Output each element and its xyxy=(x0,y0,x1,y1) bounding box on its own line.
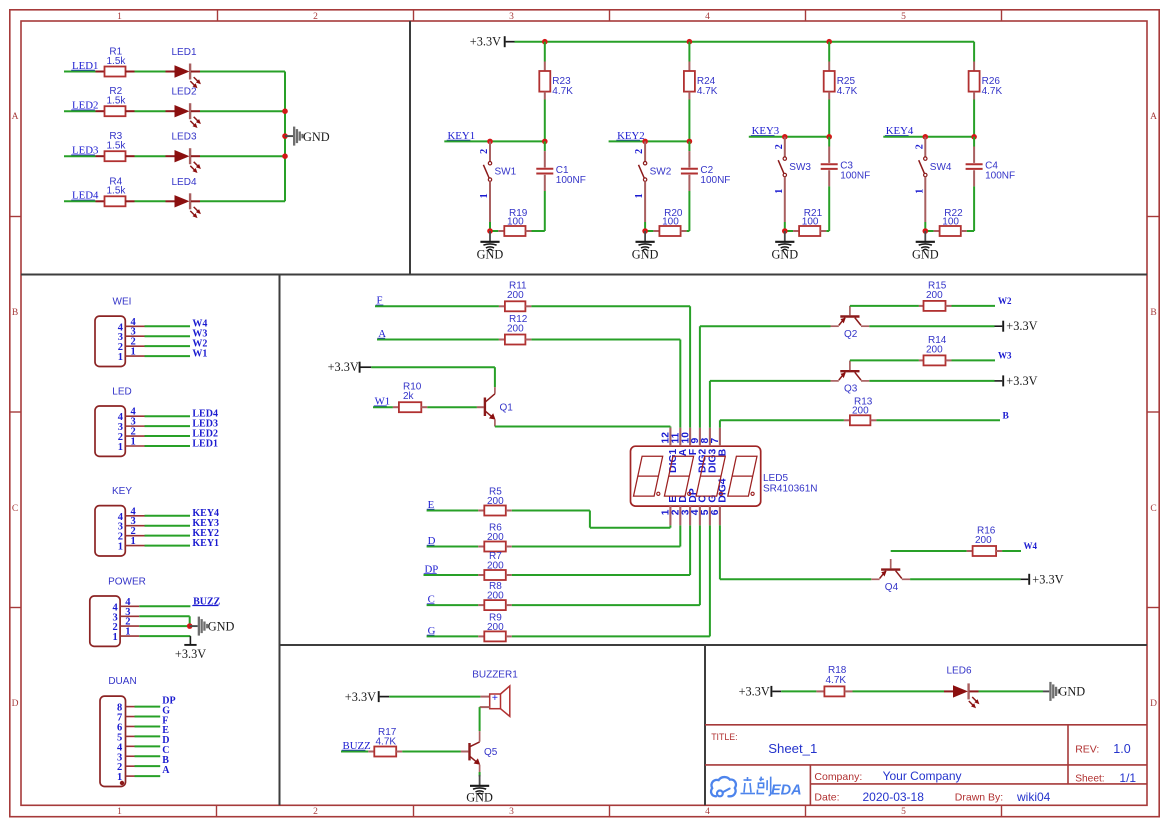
svg-text:LED2: LED2 xyxy=(171,87,196,98)
wire R25 to node xyxy=(828,100,830,137)
junction dots KEY1 xyxy=(487,139,493,145)
wire pin 2 xyxy=(145,345,191,347)
power flag +3.3V (Q4) xyxy=(1028,574,1030,585)
svg-text:Your Company: Your Company xyxy=(883,769,962,783)
svg-text:Sheet:: Sheet: xyxy=(1075,774,1104,785)
resistor R20 100 xyxy=(645,230,653,232)
svg-text:100NF: 100NF xyxy=(840,170,870,181)
resistor R12 200 xyxy=(377,339,499,341)
svg-text:W4: W4 xyxy=(1024,541,1038,551)
wire capacitor to resistor R20 xyxy=(688,191,690,231)
capacitor C2 100NF xyxy=(688,141,690,151)
svg-text:LED1: LED1 xyxy=(171,47,196,58)
wire R15 to W2 xyxy=(952,305,996,307)
wire POWER pin4 BUZZ xyxy=(139,605,190,607)
svg-text:200: 200 xyxy=(487,622,504,633)
resistor R15 200 xyxy=(850,305,919,307)
wire Q5 emitter to GND xyxy=(479,772,481,777)
wire Q2 collector to +3.3V xyxy=(869,325,994,327)
resistor R11 200 xyxy=(375,305,499,307)
svg-text:Q2: Q2 xyxy=(844,329,858,340)
svg-text:2: 2 xyxy=(634,149,645,154)
wire pin 3 xyxy=(145,335,191,337)
ground GND (POWER) xyxy=(190,625,198,627)
resistor R16 200 xyxy=(891,550,967,552)
svg-text:wiki04: wiki04 xyxy=(1016,790,1051,804)
svg-text:TITLE:: TITLE: xyxy=(711,732,737,742)
frame row ticks left xyxy=(10,216,22,218)
svg-text:2: 2 xyxy=(479,149,490,154)
resistor R6 200 xyxy=(427,546,479,548)
svg-text:Q4: Q4 xyxy=(885,582,899,593)
wire LED6 to GND xyxy=(979,690,1044,692)
wire E to display pin 1 xyxy=(512,510,590,512)
svg-text:100: 100 xyxy=(942,216,959,227)
wire LED to bus xyxy=(200,71,285,73)
svg-text:LED3: LED3 xyxy=(171,132,196,143)
svg-text:2: 2 xyxy=(914,144,925,149)
resistor R23 4.7K xyxy=(544,42,546,62)
svg-text:SW4: SW4 xyxy=(930,162,952,173)
svg-text:2020-03-18: 2020-03-18 xyxy=(863,790,925,804)
resistor R19 100 xyxy=(490,230,498,232)
resistor R17 4.7K xyxy=(341,751,368,753)
resistor R14 200 xyxy=(850,359,919,361)
svg-text:C: C xyxy=(12,504,18,514)
wire Q4 collector to +3.3V xyxy=(910,578,1021,580)
svg-text:POWER: POWER xyxy=(108,576,146,587)
LED diode LED6 xyxy=(944,690,953,692)
svg-text:1: 1 xyxy=(117,12,122,22)
wire capacitor to resistor R22 xyxy=(973,186,975,231)
wire pin 4 xyxy=(145,325,191,327)
svg-text:D: D xyxy=(12,699,19,709)
display digits xyxy=(634,456,663,496)
svg-text:KEY: KEY xyxy=(112,486,132,497)
svg-text:4: 4 xyxy=(705,12,710,22)
power flag +3.3V (Q3) xyxy=(1002,375,1004,386)
wire R2 to LED xyxy=(135,110,166,112)
wire R1 to LED xyxy=(135,71,166,73)
wire pin7 to R13 xyxy=(719,420,721,427)
switch SW3 xyxy=(784,137,786,157)
wire capacitor to resistor R21 xyxy=(828,186,830,231)
logo LCEDA cloud xyxy=(711,777,736,796)
wire pin 4 xyxy=(145,515,191,517)
junction dot GND node xyxy=(782,228,788,234)
svg-text:4.7K: 4.7K xyxy=(697,86,718,97)
wire pin 4 xyxy=(145,415,191,417)
svg-text:A: A xyxy=(1150,112,1157,122)
wire KEY1 node xyxy=(444,140,545,142)
svg-text:1: 1 xyxy=(131,536,136,547)
svg-text:1: 1 xyxy=(634,193,645,198)
svg-text:100NF: 100NF xyxy=(985,170,1015,181)
wire R14 to W3 xyxy=(952,359,996,361)
svg-text:GND: GND xyxy=(208,620,235,634)
svg-text:Q3: Q3 xyxy=(844,384,858,395)
svg-text:LED6: LED6 xyxy=(946,666,971,677)
ground GND (LED6) xyxy=(1043,690,1049,692)
svg-text:1.5k: 1.5k xyxy=(107,96,127,107)
wire A to pin11 xyxy=(531,339,680,341)
svg-text:GND: GND xyxy=(303,130,330,144)
wire switch to GND xyxy=(644,222,646,231)
svg-text:BUZZER1: BUZZER1 xyxy=(472,669,518,680)
wire R13 to B xyxy=(876,419,1000,421)
svg-text:100: 100 xyxy=(802,216,819,227)
wire R16 to W4 xyxy=(1002,550,1021,552)
svg-text:A: A xyxy=(12,112,19,122)
section divider vertical left-mid xyxy=(279,275,281,806)
svg-text:LED1: LED1 xyxy=(192,438,218,449)
svg-text:1.5k: 1.5k xyxy=(107,56,127,67)
wire capacitor to resistor R19 xyxy=(544,191,546,231)
wire Q1 emitter to pin12 xyxy=(495,426,671,428)
svg-text:7: 7 xyxy=(710,438,721,444)
svg-text:+3.3V: +3.3V xyxy=(1006,374,1037,388)
svg-text:SW3: SW3 xyxy=(789,162,811,173)
svg-text:Sheet_1: Sheet_1 xyxy=(768,741,817,756)
resistor R13 200 xyxy=(844,419,850,421)
capacitor C3 100NF xyxy=(828,137,830,147)
junction dot GND node xyxy=(923,228,929,234)
svg-text:4: 4 xyxy=(705,807,710,817)
resistor R8 200 xyxy=(427,604,479,606)
wire pin9 to Q2 xyxy=(699,326,701,428)
transistor Q1 xyxy=(484,398,486,417)
power flag +3.3V (Q2) xyxy=(1002,321,1004,332)
wire R10 to Q1 base xyxy=(427,406,477,408)
wire R23 to node xyxy=(544,100,546,142)
svg-text:4.7K: 4.7K xyxy=(552,86,573,97)
svg-text:4.7K: 4.7K xyxy=(982,86,1003,97)
resistor R3 1.5k xyxy=(96,155,105,157)
svg-text:Date:: Date: xyxy=(814,792,839,804)
svg-text:GND: GND xyxy=(912,248,939,262)
svg-text:100: 100 xyxy=(662,216,679,227)
LED diode LED1 xyxy=(166,71,175,73)
svg-text:4.7K: 4.7K xyxy=(837,86,858,97)
junction dots on rail xyxy=(542,39,548,45)
svg-text:1.0: 1.0 xyxy=(1113,742,1130,756)
wire switch to GND xyxy=(489,222,491,231)
svg-text:1: 1 xyxy=(118,442,123,453)
wire R4 to LED xyxy=(135,200,166,202)
svg-text:DUAN: DUAN xyxy=(108,676,136,687)
resistor R5 200 xyxy=(427,510,479,512)
svg-text:EDA: EDA xyxy=(771,783,802,799)
svg-text:200: 200 xyxy=(975,535,992,546)
wire +3.3V to Q1 collector xyxy=(361,366,372,368)
junction dot GND node xyxy=(487,228,493,234)
logo text 立创 xyxy=(741,777,771,796)
wire DUAN pin 1 xyxy=(135,775,161,777)
resistor R2 1.5k xyxy=(96,110,105,112)
display bottom pin stubs xyxy=(669,506,671,525)
junction dots KEY3 xyxy=(782,134,788,140)
wire LED to bus xyxy=(200,200,285,202)
section divider vertical bottom xyxy=(704,645,706,805)
wire +3.3V to buzzer xyxy=(380,696,390,698)
svg-text:2: 2 xyxy=(774,144,785,149)
wire G to display pin 5 xyxy=(512,635,710,637)
resistor R26 4.7K xyxy=(973,42,975,62)
svg-text:SR410361N: SR410361N xyxy=(763,484,817,495)
wire R24 to node xyxy=(688,100,690,142)
transistor Q3 xyxy=(840,370,859,372)
wire LED1 to R1 xyxy=(64,71,96,73)
wire pin 1 xyxy=(145,545,191,547)
wire DUAN pin 6 xyxy=(135,725,161,727)
resistor R18 4.7K xyxy=(816,690,824,692)
svg-text:100: 100 xyxy=(507,216,524,227)
transistor Q2 xyxy=(840,315,859,317)
power flag +3.3V (POWER) xyxy=(189,636,191,645)
svg-text:200: 200 xyxy=(507,290,524,301)
svg-text:B: B xyxy=(12,308,18,318)
resistor R21 100 xyxy=(785,230,793,232)
svg-text:W1: W1 xyxy=(192,348,207,359)
wire F to pin10 xyxy=(531,305,690,307)
buzzer BUZZER1 symbol xyxy=(490,694,501,709)
svg-text:W2: W2 xyxy=(998,296,1012,306)
svg-text:1: 1 xyxy=(118,352,123,363)
svg-text:+3.3V: +3.3V xyxy=(175,647,206,661)
svg-text:1: 1 xyxy=(113,632,118,643)
title block frame xyxy=(705,724,1147,726)
wire R18 to LED6 xyxy=(853,690,945,692)
resistor R22 100 xyxy=(925,230,933,232)
section divider vertical top xyxy=(409,21,411,275)
svg-text:+3.3V: +3.3V xyxy=(1006,319,1037,333)
LED diode LED2 xyxy=(166,110,175,112)
svg-text:200: 200 xyxy=(852,406,869,417)
wire DUAN pin 5 xyxy=(135,735,161,737)
svg-text:100NF: 100NF xyxy=(556,175,586,186)
svg-text:+3.3V: +3.3V xyxy=(1032,572,1063,586)
wire pin 2 xyxy=(145,435,191,437)
capacitor C4 100NF xyxy=(973,137,975,147)
wire DUAN pin 7 xyxy=(135,716,161,718)
svg-text:1: 1 xyxy=(131,347,136,358)
svg-text:4.7K: 4.7K xyxy=(826,675,847,686)
wire pin8 to Q3 xyxy=(709,381,711,428)
svg-text:B: B xyxy=(1150,308,1156,318)
svg-text:LED5: LED5 xyxy=(763,473,788,484)
junction dots KEY4 xyxy=(923,134,929,140)
ground GND (KEY1) xyxy=(489,231,491,242)
svg-text:D: D xyxy=(1150,699,1157,709)
svg-text:WEI: WEI xyxy=(113,297,132,308)
svg-text:Drawn By:: Drawn By: xyxy=(955,792,1003,804)
wire LED3 to R3 xyxy=(64,155,96,157)
svg-text:1: 1 xyxy=(125,627,130,638)
svg-text:GND: GND xyxy=(477,248,504,262)
junction dot GND node xyxy=(642,228,648,234)
ground GND (LED block) xyxy=(285,135,293,137)
frame column ticks bottom xyxy=(216,805,218,816)
wire DUAN pin 4 xyxy=(135,745,161,747)
wire switch to GND xyxy=(784,222,786,231)
svg-text:100NF: 100NF xyxy=(700,175,730,186)
wire R26 to node xyxy=(973,100,975,137)
svg-text:200: 200 xyxy=(926,345,943,356)
svg-text:+3.3V: +3.3V xyxy=(345,690,376,704)
display top pin stubs xyxy=(669,428,671,447)
svg-text:SW2: SW2 xyxy=(650,167,672,178)
junction dot POWER GND xyxy=(187,623,193,629)
junction dots on bus xyxy=(282,108,288,114)
svg-text:200: 200 xyxy=(926,290,943,301)
svg-text:200: 200 xyxy=(507,324,524,335)
wire POWER pin3 xyxy=(139,615,189,617)
wire pin 1 xyxy=(145,355,191,357)
resistor R7 200 xyxy=(424,574,479,576)
svg-text:A: A xyxy=(162,765,170,776)
wire LED2 to R2 xyxy=(64,110,96,112)
svg-text:200: 200 xyxy=(487,561,504,572)
svg-text:B: B xyxy=(1003,411,1010,421)
LED diode LED3 xyxy=(166,155,175,157)
svg-text:1: 1 xyxy=(117,807,122,817)
switch SW4 xyxy=(924,137,926,157)
transistor Q5 xyxy=(468,743,470,760)
wire pin 2 xyxy=(145,535,191,537)
wire pin 3 xyxy=(145,425,191,427)
resistor R24 4.7K xyxy=(688,42,690,62)
wire R3 to LED xyxy=(135,155,166,157)
svg-text:2: 2 xyxy=(313,12,318,22)
pin1 marker dot DUAN xyxy=(120,781,124,785)
svg-text:W3: W3 xyxy=(998,350,1012,360)
svg-text:KEY1: KEY1 xyxy=(192,538,219,549)
svg-text:200: 200 xyxy=(487,591,504,602)
wire DUAN pin 2 xyxy=(135,765,161,767)
svg-text:1.5k: 1.5k xyxy=(107,141,127,152)
section divider horizontal upper xyxy=(21,274,1147,276)
resistor R1 1.5k xyxy=(96,71,105,73)
svg-text:1: 1 xyxy=(774,189,785,194)
frame row ticks right xyxy=(1147,216,1160,218)
svg-text:LED4: LED4 xyxy=(171,177,196,188)
svg-text:1: 1 xyxy=(118,542,123,553)
wire R17 to Q5 base xyxy=(402,751,461,753)
svg-text:4.7K: 4.7K xyxy=(376,737,397,748)
svg-text:3: 3 xyxy=(509,12,514,22)
resistor R25 4.7K xyxy=(828,42,830,62)
switch SW1 xyxy=(489,141,491,161)
svg-text:+3.3V: +3.3V xyxy=(470,35,501,49)
wire C to display pin 4 xyxy=(512,604,700,606)
svg-text:1: 1 xyxy=(479,193,490,198)
wire buzzer to Q5 xyxy=(480,706,490,708)
svg-text:GND: GND xyxy=(771,248,798,262)
transistor Q4 xyxy=(881,568,900,570)
svg-text:SW1: SW1 xyxy=(495,167,517,178)
wire LED4 to R4 xyxy=(64,200,96,202)
capacitor C1 100NF xyxy=(544,141,546,151)
wire gnd bus vertical xyxy=(284,72,286,202)
svg-text:200: 200 xyxy=(487,532,504,543)
wire POWER pin1 +3.3V xyxy=(139,635,190,637)
wire pin 1 xyxy=(145,445,191,447)
svg-text:5: 5 xyxy=(901,807,906,817)
svg-text:6: 6 xyxy=(710,509,721,515)
svg-text:1: 1 xyxy=(131,436,136,447)
svg-text:GND: GND xyxy=(1059,685,1086,699)
svg-text:Q5: Q5 xyxy=(484,747,498,758)
svg-text:3: 3 xyxy=(509,807,514,817)
svg-text:REV:: REV: xyxy=(1075,744,1099,756)
frame column ticks top xyxy=(217,10,219,22)
wire D to display pin 2 xyxy=(512,546,681,548)
wire Q3 collector to +3.3V xyxy=(869,380,994,382)
svg-text:200: 200 xyxy=(487,496,504,507)
svg-text:1.5k: 1.5k xyxy=(107,186,127,197)
svg-text:Company:: Company: xyxy=(814,771,862,783)
wire KEY4 node xyxy=(883,136,974,138)
wire +3.3V to R18 xyxy=(772,690,781,692)
7-segment display LED5 SR410361N xyxy=(631,446,761,506)
wire KEY3 node xyxy=(749,136,829,138)
resistor R4 1.5k xyxy=(96,200,105,202)
svg-text:C: C xyxy=(1150,504,1156,514)
wire +3.3V rail xyxy=(506,41,515,43)
svg-text:GND: GND xyxy=(466,790,493,804)
svg-text:+3.3V: +3.3V xyxy=(328,360,359,374)
junction dots KEY2 xyxy=(642,139,648,145)
wire DUAN pin 3 xyxy=(135,755,161,757)
svg-text:1: 1 xyxy=(914,189,925,194)
svg-text:2k: 2k xyxy=(403,391,415,402)
wire KEY2 node xyxy=(609,140,690,142)
ground GND (buzzer) xyxy=(479,775,481,786)
wire pin6 to Q4 xyxy=(719,525,721,579)
ground GND (KEY4) xyxy=(924,231,926,242)
wire LED to bus xyxy=(200,155,285,157)
svg-text:+3.3V: +3.3V xyxy=(739,685,770,699)
resistor R10 2k xyxy=(373,406,393,408)
svg-text:B: B xyxy=(718,449,729,456)
svg-text:5: 5 xyxy=(901,12,906,22)
wire DUAN pin 8 xyxy=(135,706,161,708)
switch SW2 xyxy=(644,141,646,161)
ground GND (KEY2) xyxy=(644,231,646,242)
svg-text:1/1: 1/1 xyxy=(1119,771,1136,785)
resistor R9 200 xyxy=(427,635,479,637)
svg-text:2: 2 xyxy=(313,807,318,817)
wire DP to display pin 3 xyxy=(512,574,690,576)
wire pin 3 xyxy=(145,525,191,527)
wire switch to GND xyxy=(924,222,926,231)
svg-text:+: + xyxy=(492,692,498,704)
section divider horizontal lower xyxy=(280,644,1148,646)
svg-text:LED: LED xyxy=(112,387,131,398)
LED diode LED4 xyxy=(166,200,175,202)
svg-text:Q1: Q1 xyxy=(500,403,514,414)
wire LED to bus xyxy=(200,110,285,112)
wire POWER pin2 GND xyxy=(139,625,189,627)
svg-text:GND: GND xyxy=(632,248,659,262)
ground GND (KEY3) xyxy=(784,231,786,242)
